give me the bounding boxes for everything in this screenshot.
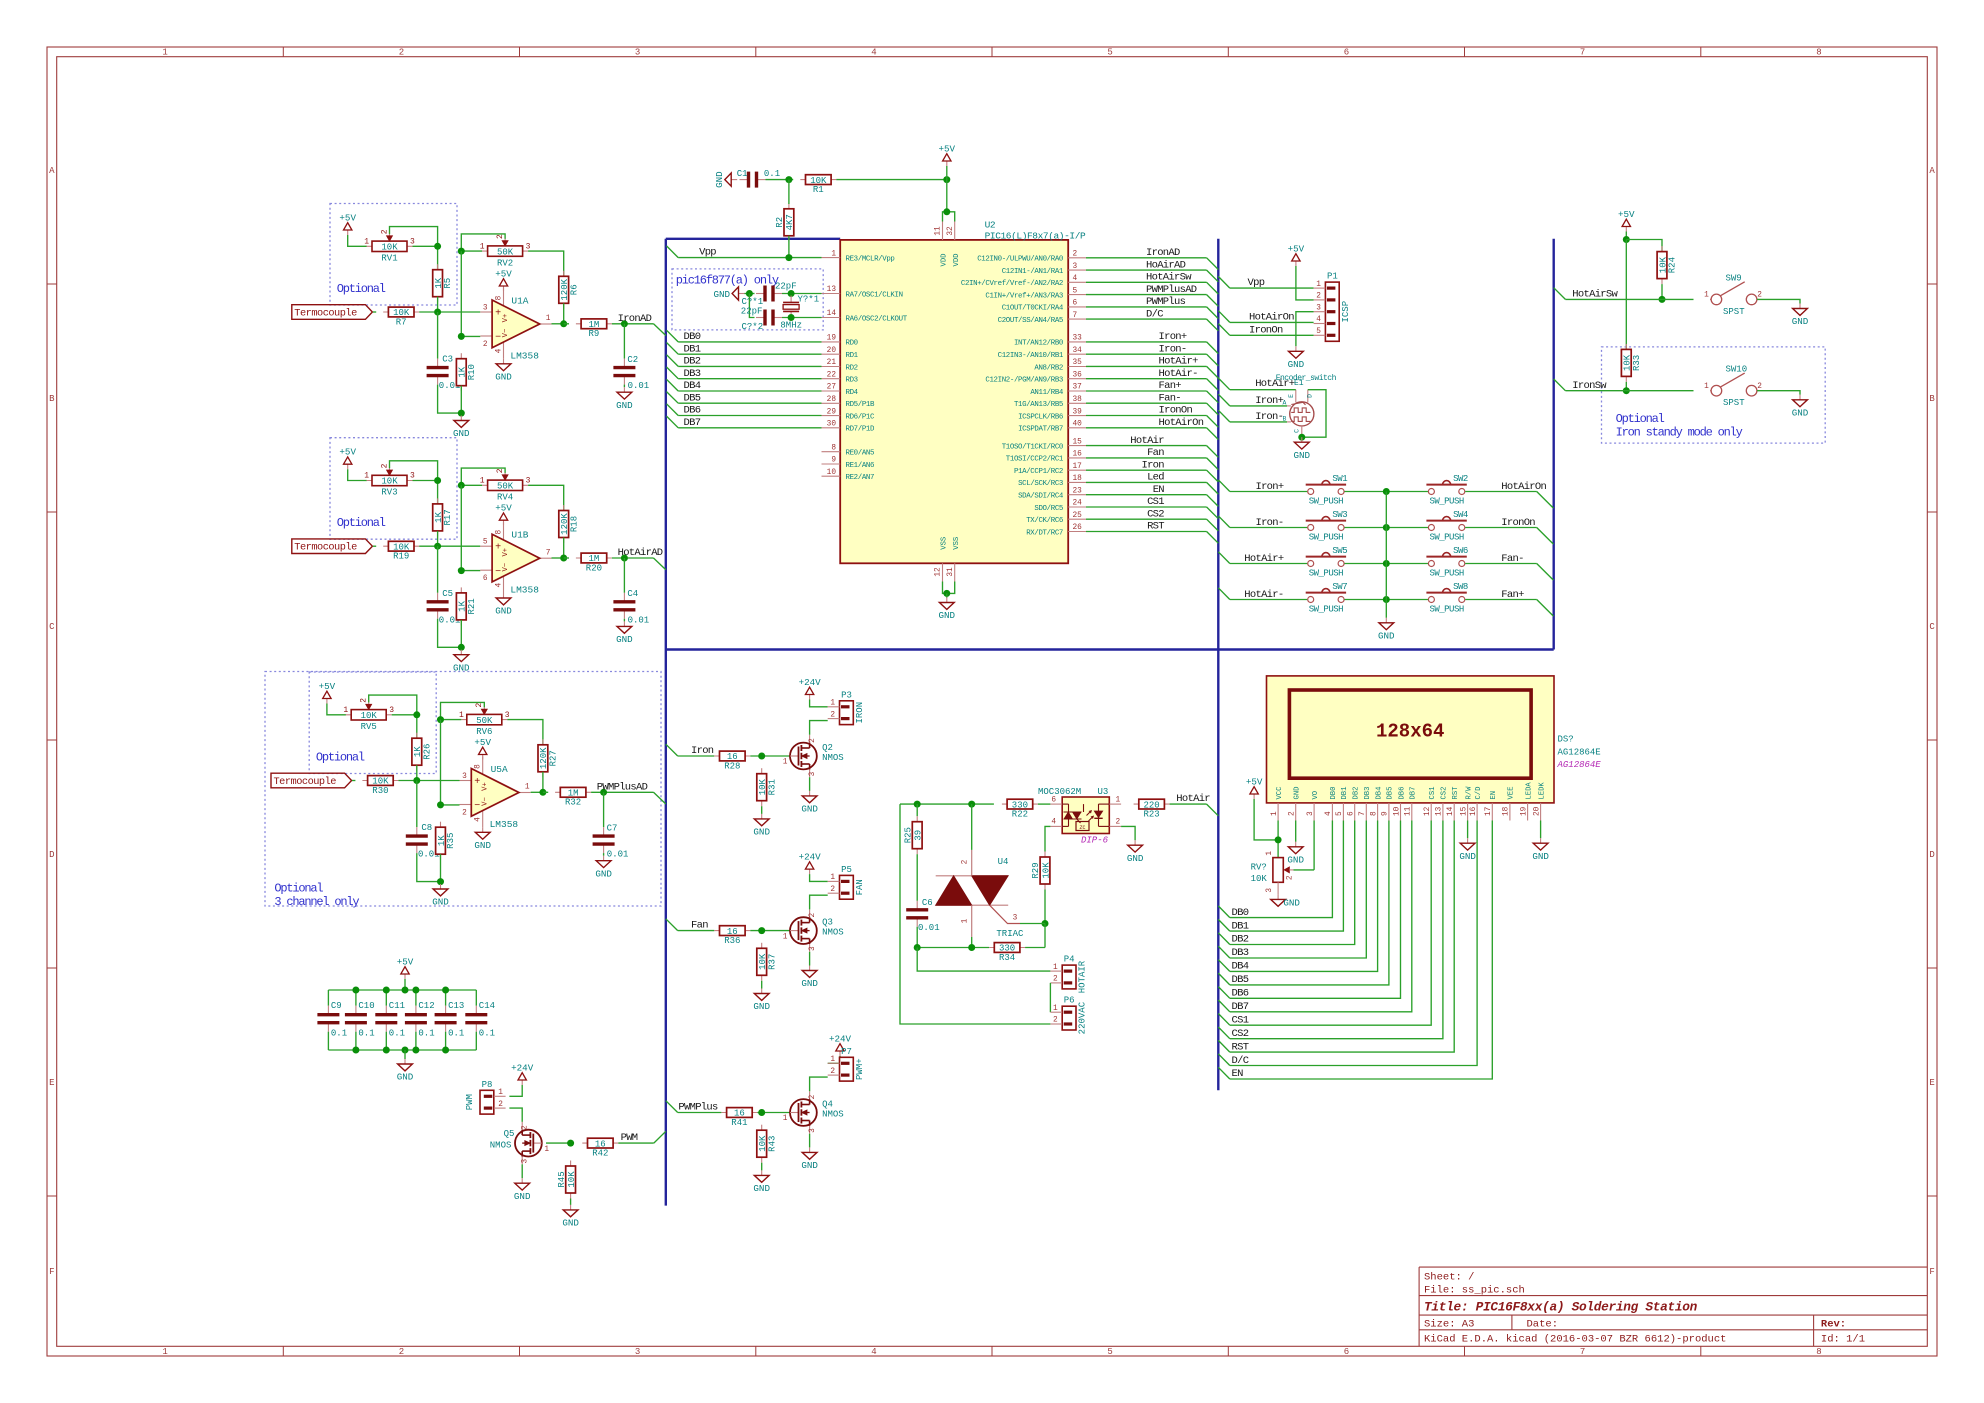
ground: [514, 1178, 531, 1202]
wire: [761, 1163, 763, 1171]
svg-text:RE0/AN5: RE0/AN5: [846, 450, 875, 458]
wire: [1020, 923, 1045, 925]
bus entry: [1218, 1040, 1230, 1052]
svg-text:3: 3: [809, 771, 817, 776]
svg-text:SW_PUSH: SW_PUSH: [1429, 532, 1463, 542]
svg-text:1: 1: [525, 784, 530, 792]
svg-text:RST: RST: [1147, 521, 1164, 533]
svg-text:R28: R28: [724, 761, 740, 771]
svg-text:+5V: +5V: [939, 143, 956, 154]
resistor R17: [433, 498, 454, 536]
svg-text:15: 15: [1460, 806, 1468, 816]
svg-text:R22: R22: [1012, 810, 1028, 820]
svg-text:4: 4: [1316, 316, 1321, 324]
ground: [1792, 304, 1809, 328]
global label Termocouple: [271, 773, 352, 788]
resistor R7: [383, 307, 419, 327]
svg-text:33: 33: [1073, 335, 1083, 343]
bus entry: [1207, 804, 1219, 816]
svg-text:HotAir-: HotAir-: [1159, 368, 1198, 380]
junction: [383, 1047, 390, 1054]
wire: [1086, 294, 1207, 296]
wire: [1086, 481, 1207, 483]
triac U4: [936, 850, 1024, 939]
svg-text:KiCad E.D.A. kicad (2016-03-0: KiCad E.D.A. kicad (2016-03-07 BZR 6612)…: [1424, 1333, 1726, 1345]
svg-text:NMOS: NMOS: [490, 1141, 512, 1151]
junction: [914, 801, 921, 808]
svg-text:PWMPlusAD: PWMPlusAD: [1146, 284, 1197, 296]
svg-text:SW2: SW2: [1453, 474, 1468, 484]
ground: [939, 598, 956, 622]
svg-text:Iron-: Iron-: [1255, 411, 1283, 423]
net label RST: [1147, 521, 1164, 533]
junction: [785, 254, 792, 261]
svg-text:19: 19: [827, 335, 837, 343]
svg-text:2: 2: [1287, 875, 1295, 880]
net label CS2: [1232, 1028, 1249, 1040]
wire: [623, 619, 625, 622]
svg-text:V+: V+: [502, 314, 510, 323]
wire: [328, 989, 476, 991]
bus entry: [1537, 600, 1554, 617]
svg-text:7: 7: [1580, 1347, 1585, 1357]
svg-text:4: 4: [871, 1347, 876, 1357]
wire: [678, 415, 821, 417]
svg-text:Iron+: Iron+: [1159, 331, 1187, 343]
bus entry: [667, 379, 679, 391]
wire: [916, 854, 918, 901]
junction: [437, 801, 444, 808]
svg-text:AG12864E: AG12864E: [1558, 747, 1601, 757]
wire: [327, 704, 346, 715]
svg-text:4: 4: [496, 583, 504, 588]
net label Iron+: [1255, 395, 1283, 407]
wire: [461, 484, 482, 486]
svg-text:4: 4: [1325, 811, 1333, 816]
net label Fan+: [1501, 589, 1524, 601]
encoder switch E1: [1276, 374, 1337, 437]
svg-text:GND: GND: [801, 978, 818, 989]
svg-text:RD5/P1B: RD5/P1B: [846, 401, 876, 409]
net label HotAirAD: [618, 547, 663, 559]
svg-text:GND: GND: [801, 804, 818, 815]
wire: [1049, 983, 1051, 1012]
wire: [916, 804, 918, 816]
svg-text:R7: R7: [396, 317, 407, 327]
svg-text:3: 3: [483, 305, 488, 313]
connector P4: [1050, 955, 1087, 994]
svg-text:2: 2: [1316, 293, 1321, 301]
net label HotAir+: [1159, 356, 1199, 368]
svg-text:3 channel only: 3 channel only: [274, 895, 359, 909]
svg-text:5: 5: [1073, 287, 1078, 295]
svg-text:Vpp: Vpp: [1248, 277, 1265, 289]
ground: [1294, 437, 1311, 461]
svg-text:7: 7: [1359, 811, 1367, 816]
svg-text:Date:: Date:: [1527, 1318, 1559, 1330]
resistor R28: [714, 751, 750, 771]
svg-text:RE3/MCLR/Vpp: RE3/MCLR/Vpp: [846, 255, 895, 263]
wire: [419, 311, 480, 313]
svg-text:C?*2: C?*2: [742, 322, 764, 332]
svg-text:10K: 10K: [361, 711, 378, 721]
bus entry: [1218, 311, 1230, 323]
svg-text:GND: GND: [397, 1072, 414, 1083]
switch SW8: [1426, 582, 1468, 614]
wire: [678, 755, 715, 757]
junction: [434, 309, 441, 316]
wire: [623, 324, 625, 359]
svg-text:0.1: 0.1: [331, 1029, 347, 1039]
svg-text:1: 1: [1271, 811, 1279, 816]
svg-text:2: 2: [809, 912, 817, 917]
wire: [461, 251, 480, 336]
svg-text:R27: R27: [549, 750, 559, 766]
wire: [390, 227, 438, 247]
switch SW7: [1306, 582, 1348, 614]
wire: [1465, 599, 1537, 601]
junction: [1623, 236, 1630, 243]
wire: [475, 990, 477, 1006]
wire: [438, 619, 462, 648]
svg-text:1: 1: [364, 238, 369, 247]
wire: [971, 804, 973, 850]
wire: [416, 765, 418, 780]
svg-text:HotAir: HotAir: [1176, 793, 1210, 805]
svg-text:−: −: [474, 801, 480, 812]
bus entry: [1218, 906, 1230, 918]
potentiometer RV5: [343, 698, 394, 732]
svg-text:22pF: 22pF: [775, 281, 797, 291]
wire: [1038, 803, 1051, 805]
wire: [1086, 415, 1207, 417]
svg-text:A: A: [1929, 166, 1935, 176]
ground: [713, 287, 744, 300]
svg-text:16: 16: [1470, 806, 1478, 816]
switch SW2: [1426, 474, 1468, 506]
svg-text:T1OSO/T1CKI/RC0: T1OSO/T1CKI/RC0: [1002, 443, 1063, 451]
junction: [560, 320, 567, 327]
potentiometer RV2: [480, 234, 531, 268]
crystal Y?*1: [780, 294, 819, 330]
wire: [943, 212, 955, 222]
svg-text:29: 29: [827, 408, 837, 416]
svg-text:1: 1: [783, 933, 788, 941]
svg-text:3: 3: [635, 48, 640, 58]
wire: [810, 721, 828, 735]
bus entry: [1207, 391, 1219, 403]
wire: [750, 755, 790, 757]
wire: [603, 792, 605, 827]
bus entry: [1207, 403, 1219, 415]
svg-text:0.1: 0.1: [479, 1029, 495, 1039]
ground: [1459, 838, 1476, 862]
bus entry: [654, 324, 666, 336]
note box Optional 3 channel only: [265, 672, 661, 909]
wire: [475, 1032, 477, 1050]
wire: [1757, 391, 1800, 395]
wire: [416, 781, 418, 828]
bus entry: [667, 330, 679, 342]
net label DB0: [684, 331, 701, 343]
wire: [385, 1032, 387, 1050]
junction: [1659, 296, 1666, 303]
bus entry: [1218, 276, 1230, 288]
svg-text:P1: P1: [1327, 272, 1338, 282]
svg-text:R37: R37: [767, 954, 777, 970]
bus entry: [1537, 492, 1554, 509]
wire: [509, 1085, 522, 1096]
svg-text:GND: GND: [1294, 787, 1302, 800]
svg-text:SW9: SW9: [1726, 273, 1742, 283]
svg-text:RD3: RD3: [846, 377, 858, 385]
wire: [1230, 821, 1493, 1080]
svg-text:3: 3: [809, 1128, 817, 1133]
wire: [1086, 365, 1207, 367]
wire: [1086, 445, 1207, 447]
wire: [1230, 821, 1344, 932]
svg-text:0.1: 0.1: [448, 1029, 464, 1039]
svg-text:SCL/SCK/RC3: SCL/SCK/RC3: [1018, 480, 1063, 488]
wire: [1296, 312, 1314, 347]
svg-text:2: 2: [830, 711, 835, 719]
svg-text:E: E: [49, 1078, 54, 1088]
svg-text:Termocouple: Termocouple: [294, 307, 357, 319]
wire: [946, 593, 948, 597]
op-amp U1A: [480, 288, 551, 361]
svg-text:RD4: RD4: [846, 389, 859, 397]
wire: [1044, 890, 1046, 924]
power +5V: [1618, 209, 1635, 232]
svg-text:R20: R20: [586, 563, 602, 573]
svg-text:ZC: ZC: [1079, 825, 1085, 831]
svg-text:IronOn: IronOn: [1501, 517, 1535, 529]
svg-text:RE1/AN6: RE1/AN6: [846, 462, 875, 470]
svg-text:V−: V−: [502, 329, 510, 338]
wire: [678, 378, 821, 380]
svg-text:DB4: DB4: [1375, 787, 1383, 800]
svg-text:CS2: CS2: [1441, 787, 1449, 800]
svg-text:DB3: DB3: [1364, 787, 1372, 800]
svg-text:V−: V−: [481, 797, 489, 806]
svg-text:PWMPlus: PWMPlus: [1146, 296, 1186, 308]
capacitor C4: [613, 589, 649, 625]
net label Vpp: [1248, 277, 1265, 289]
wire: [543, 791, 548, 793]
svg-text:R/W: R/W: [1465, 786, 1473, 800]
wire: [392, 715, 417, 739]
bus middle vertical: [1217, 239, 1219, 1091]
svg-text:1: 1: [544, 1146, 549, 1154]
wire: [1230, 821, 1431, 1026]
svg-text:C3: C3: [442, 355, 453, 365]
svg-text:E: E: [1288, 394, 1295, 398]
wire: [809, 952, 811, 966]
svg-text:C2IN+/CVref/Vref-/AN2/RA2: C2IN+/CVref/Vref-/AN2/RA2: [961, 280, 1063, 288]
svg-text:39: 39: [1073, 408, 1083, 416]
svg-text:GND: GND: [616, 400, 633, 411]
wire: [618, 1142, 654, 1144]
svg-text:VSS: VSS: [941, 537, 949, 550]
svg-text:SW6: SW6: [1453, 546, 1468, 556]
net label Iron: [691, 745, 714, 757]
wire: [1086, 318, 1207, 320]
svg-text:DB2: DB2: [1353, 787, 1361, 800]
svg-text:SDA/SDI/RC4: SDA/SDI/RC4: [1018, 493, 1064, 501]
svg-text:9: 9: [831, 457, 836, 465]
wire: [612, 557, 654, 559]
potentiometer RV3: [364, 463, 415, 497]
wire: [1121, 826, 1135, 840]
svg-text:1: 1: [1053, 964, 1058, 972]
potentiometer RV6: [459, 703, 510, 737]
svg-text:PWM+: PWM+: [855, 1058, 865, 1080]
note box Optional: [330, 438, 457, 540]
svg-text:HotAir+: HotAir+: [1159, 356, 1199, 368]
junction: [785, 176, 792, 183]
svg-text:LEDK: LEDK: [1538, 782, 1546, 800]
svg-text:1: 1: [1704, 292, 1709, 300]
svg-text:AG12864E: AG12864E: [1557, 760, 1602, 770]
svg-text:10: 10: [1393, 806, 1401, 816]
svg-text:3: 3: [1073, 263, 1078, 271]
ground: [753, 1170, 770, 1194]
junction: [914, 944, 921, 951]
ground: [397, 1059, 414, 1083]
ground: [1288, 346, 1305, 370]
wire: [1254, 799, 1278, 840]
capacitor C2: [613, 355, 649, 391]
svg-text:GND: GND: [1288, 359, 1305, 370]
net label D/C: [1146, 308, 1163, 320]
svg-text:12: 12: [935, 567, 943, 577]
svg-text:R25: R25: [903, 827, 913, 843]
net label HotAirSw: [1572, 289, 1618, 301]
wire: [1230, 334, 1314, 336]
svg-text:1: 1: [1116, 796, 1121, 804]
svg-text:R43: R43: [767, 1136, 777, 1152]
wire: [413, 246, 438, 269]
power +24V: [829, 1033, 852, 1056]
capacitor C3: [427, 355, 461, 392]
net label CS1: [1232, 1014, 1249, 1026]
svg-text:GND: GND: [562, 1218, 579, 1229]
svg-text:R34: R34: [999, 953, 1015, 963]
svg-text:9: 9: [1382, 811, 1390, 816]
ground: [616, 621, 633, 645]
LCD display DS? 128x64: [1267, 676, 1602, 821]
svg-text:0.1: 0.1: [389, 1029, 405, 1039]
svg-text:pic16f877(a) only: pic16f877(a) only: [676, 273, 779, 287]
resistor R23: [1134, 799, 1170, 819]
bus left vertical: [665, 239, 667, 1206]
wire: [437, 546, 439, 593]
svg-text:Iron: Iron: [691, 745, 714, 757]
bus entry: [1207, 270, 1219, 282]
svg-text:GND: GND: [1792, 407, 1809, 418]
svg-text:SW_PUSH: SW_PUSH: [1309, 568, 1343, 578]
net label DB3: [684, 368, 701, 380]
power +5V: [397, 956, 414, 979]
svg-text:LEDA: LEDA: [1525, 782, 1533, 800]
wire: [373, 311, 376, 313]
power +5V: [319, 681, 336, 704]
svg-text:31: 31: [947, 567, 955, 577]
ground: [495, 359, 512, 383]
net label DB2: [1232, 934, 1249, 946]
svg-text:4: 4: [871, 48, 876, 58]
wire: [1345, 599, 1429, 601]
potentiometer RV4: [480, 468, 531, 502]
bus entry: [1218, 552, 1230, 564]
bus entry: [1207, 532, 1219, 544]
svg-text:+5V: +5V: [1288, 243, 1305, 254]
svg-text:6: 6: [1344, 48, 1349, 58]
svg-text:GND: GND: [1459, 851, 1476, 862]
wire: [917, 948, 1050, 972]
svg-text:40: 40: [1073, 421, 1083, 429]
bus entry: [1207, 282, 1219, 294]
svg-text:DS?: DS?: [1558, 735, 1574, 745]
note box Optional: [309, 672, 436, 774]
note box Optional: [330, 204, 457, 306]
power +5V: [474, 737, 491, 760]
wire: [546, 1142, 571, 1144]
global label Termocouple: [292, 305, 373, 320]
wire: [369, 695, 417, 715]
svg-text:RV3: RV3: [381, 488, 397, 498]
resistor R45: [557, 1161, 577, 1199]
wire: [1170, 803, 1207, 805]
svg-text:GND: GND: [1792, 316, 1809, 327]
svg-text:RV?: RV?: [1251, 863, 1267, 873]
bus entry: [1218, 933, 1230, 945]
svg-text:2: 2: [399, 48, 404, 58]
junction: [458, 567, 465, 574]
svg-text:1: 1: [546, 315, 551, 323]
junction: [788, 290, 795, 297]
svg-text:SW3: SW3: [1332, 510, 1347, 520]
svg-text:11: 11: [935, 226, 943, 236]
svg-text:HotAirOn: HotAirOn: [1159, 417, 1204, 429]
net label DB0: [1232, 907, 1249, 919]
svg-text:HotAirSw: HotAirSw: [1572, 289, 1618, 301]
net label DB4: [1232, 961, 1249, 973]
svg-text:NMOS: NMOS: [822, 1109, 844, 1119]
resistor R30: [362, 776, 398, 796]
wire: [810, 895, 828, 909]
ground: [801, 1147, 818, 1171]
svg-text:C2: C2: [627, 355, 638, 365]
connector P8: [465, 1080, 506, 1114]
svg-text:F: F: [1929, 1267, 1934, 1277]
bus entry: [1554, 379, 1566, 391]
wire: [1230, 821, 1389, 985]
svg-text:20: 20: [827, 347, 837, 355]
ground: [801, 966, 818, 990]
svg-text:17: 17: [1073, 463, 1083, 471]
net label Iron+: [1255, 481, 1283, 493]
junction: [1042, 920, 1049, 927]
svg-text:0.01: 0.01: [628, 381, 650, 391]
junction: [434, 477, 441, 484]
resistor R33: [1621, 344, 1642, 382]
op-amp U5A: [460, 757, 531, 830]
capacitor C7: [593, 823, 629, 859]
svg-text:HoAirAD: HoAirAD: [1146, 259, 1186, 271]
svg-text:PWM: PWM: [621, 1132, 638, 1144]
junction: [434, 243, 441, 250]
